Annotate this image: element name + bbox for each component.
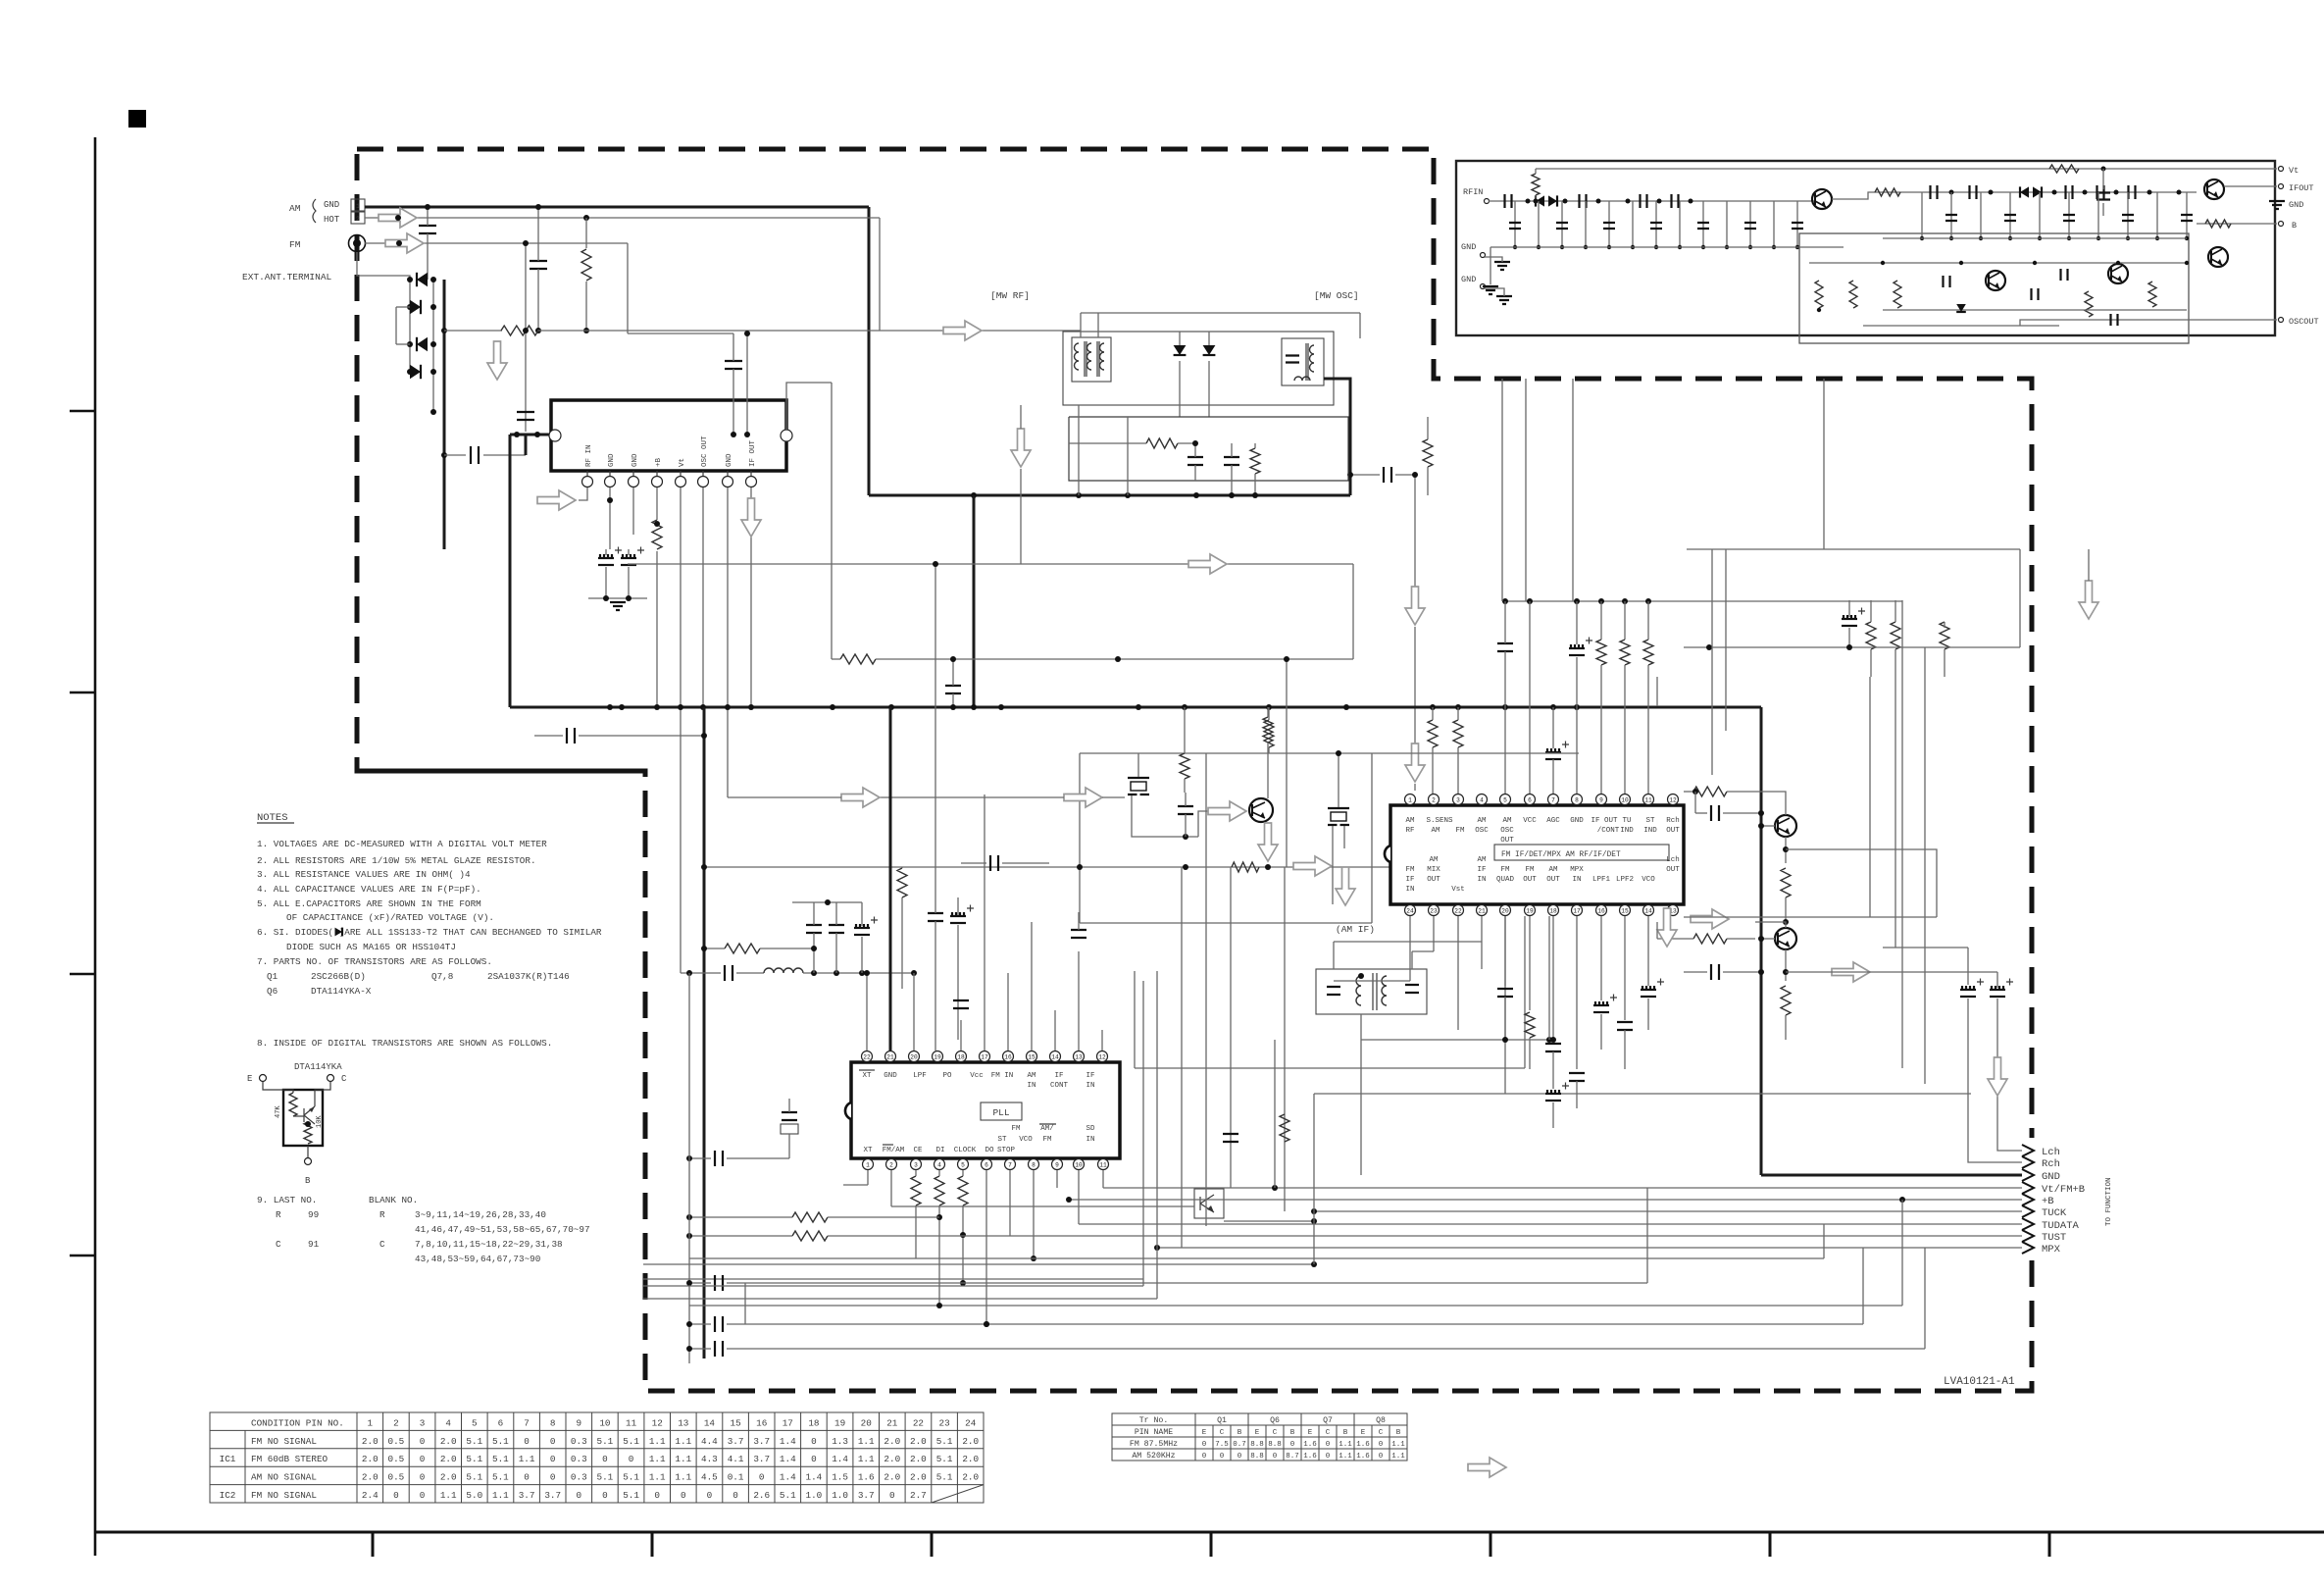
svg-text:TUST: TUST: [2042, 1232, 2066, 1244]
res below bus c: [1453, 720, 1463, 747]
svg-text:OSC OUT: OSC OUT: [701, 436, 709, 467]
svg-text:11: 11: [1644, 796, 1652, 803]
wire RFIN pin down: [579, 487, 587, 500]
dot chain b: [1949, 190, 1954, 195]
svg-text:1: 1: [866, 1161, 870, 1168]
svg-text:8.8: 8.8: [1250, 1453, 1264, 1461]
ecap above PLL d: [950, 922, 966, 924]
PLL pin 10: [1074, 1159, 1085, 1170]
cap ic1b d: [1569, 1073, 1585, 1081]
svg-text:CE: CE: [913, 1147, 923, 1154]
svg-text:2.0: 2.0: [362, 1472, 379, 1483]
svg-text:FM: FM: [289, 239, 301, 250]
svg-text:3.7: 3.7: [753, 1454, 770, 1464]
svg-text:C: C: [379, 1239, 385, 1250]
svg-text:C: C: [1326, 1429, 1331, 1437]
svg-text:TUDATA: TUDATA: [2042, 1220, 2080, 1232]
svg-text:0: 0: [1202, 1453, 1207, 1461]
cap bottom c: [715, 1275, 723, 1291]
MW osc cage: [1069, 417, 1348, 481]
svg-text:IF: IF: [1477, 866, 1486, 874]
res v right of CF1: [1180, 753, 1189, 779]
PLL pin 19: [933, 1051, 943, 1062]
svg-text:4. ALL CAPACITANCE VALUES ARE: 4. ALL CAPACITANCE VALUES ARE IN F(P=pF)…: [257, 884, 481, 895]
svg-text:5.1: 5.1: [623, 1490, 639, 1501]
svg-text:1.4: 1.4: [780, 1436, 796, 1447]
svg-text:VCC: VCC: [1523, 817, 1537, 825]
svg-text:0: 0: [393, 1490, 399, 1501]
mid long wire: [628, 563, 1353, 565]
wire to OSCOUT: [2020, 320, 2277, 326]
wire pin1 down: [867, 1170, 869, 1185]
svg-text:21: 21: [886, 1053, 894, 1060]
svg-text:FM: FM: [1042, 1136, 1052, 1144]
svg-text:5.1: 5.1: [466, 1454, 482, 1464]
svg-text:0: 0: [420, 1472, 426, 1483]
label OSCOUT: [2279, 318, 2284, 323]
svg-text:CLOCK: CLOCK: [954, 1147, 977, 1154]
svg-text:17: 17: [1573, 907, 1581, 914]
wire xt up: [866, 973, 868, 1051]
IC1 body: [1390, 805, 1684, 904]
svg-text:GND: GND: [1461, 275, 1476, 284]
svg-text:2: 2: [889, 1161, 893, 1168]
wire RFIN chain: [1489, 200, 1814, 202]
svg-text:IF: IF: [1054, 1072, 1063, 1080]
svg-text:14: 14: [1644, 907, 1652, 914]
svg-text:FM IN: FM IN: [991, 1072, 1014, 1080]
cap v above pin18: [953, 1000, 969, 1008]
PLL pin 17: [980, 1051, 990, 1062]
svg-text:1.1: 1.1: [649, 1454, 666, 1464]
svg-text:Q1: Q1: [267, 971, 278, 982]
res above PLL: [897, 868, 907, 897]
cap front-end chain2: [1641, 194, 1647, 208]
svg-text:FM: FM: [1500, 866, 1510, 874]
caps row dots: [1502, 1037, 1508, 1043]
wire Vt drop: [680, 487, 682, 707]
diode pair front-end 1: [1536, 195, 1544, 206]
svg-text:2. ALL RESISTORS ARE 1/10W 5%: 2. ALL RESISTORS ARE 1/10W 5% METAL GLAZ…: [257, 855, 536, 866]
res below bus b: [1428, 720, 1438, 747]
wire to TUCK: [1314, 1210, 2022, 1212]
svg-text:1.1: 1.1: [1391, 1453, 1405, 1461]
svg-text:C: C: [341, 1074, 347, 1084]
svg-text:1.1: 1.1: [1391, 1441, 1405, 1449]
cap mid chain5: [2129, 185, 2136, 199]
osc section wires: [1809, 262, 2187, 264]
svg-text:3.7: 3.7: [519, 1490, 535, 1501]
svg-text:1.6: 1.6: [1303, 1441, 1317, 1449]
wire to TUDATA: [1079, 1223, 2022, 1225]
svg-text:LPF: LPF: [913, 1072, 927, 1080]
wire GND2 pin drop: [632, 487, 634, 535]
IC1 pin24 down: [1409, 916, 1411, 981]
svg-text:2.0: 2.0: [362, 1454, 379, 1464]
svg-text:IF OUT: IF OUT: [1591, 817, 1618, 825]
svg-text:1.1: 1.1: [649, 1472, 666, 1483]
svg-text:0.5: 0.5: [388, 1454, 405, 1464]
output chevrons: [2022, 1145, 2034, 1156]
front-end bypass bank 2: [1921, 192, 1923, 238]
svg-text:IN: IN: [1086, 1082, 1094, 1090]
RF feed corner: [510, 435, 551, 455]
svg-text:8.7: 8.7: [1286, 1453, 1299, 1461]
svg-text:0: 0: [1290, 1441, 1295, 1449]
bottom border tick 6: [1769, 1532, 1772, 1557]
wire B line: [2197, 223, 2277, 225]
mid chain: [1902, 191, 2197, 193]
svg-text:C: C: [1379, 1429, 1384, 1437]
svg-text:AM 520KHz: AM 520KHz: [1132, 1452, 1175, 1461]
wire pin14 up: [1054, 1010, 1056, 1051]
svg-text:GND: GND: [1570, 817, 1584, 825]
wire to Lch: [1997, 1108, 2022, 1151]
MW OSC transformer: [1282, 338, 1324, 385]
svg-text:1.3: 1.3: [832, 1436, 848, 1447]
svg-text:18: 18: [957, 1053, 965, 1060]
svg-text:QUAD: QUAD: [1496, 876, 1515, 884]
svg-text:1.1: 1.1: [675, 1436, 691, 1447]
svg-text:AM: AM: [1477, 817, 1487, 825]
IC1 pin 11: [1643, 794, 1654, 805]
bus drop dark: [703, 707, 706, 1358]
svg-text:IFOUT: IFOUT: [2289, 183, 2314, 193]
svg-text:Tr No.: Tr No.: [1139, 1416, 1168, 1425]
bottom border tick 5: [1490, 1532, 1492, 1557]
svg-text:7. PARTS NO. OF TRANSISTORS AR: 7. PARTS NO. OF TRANSISTORS ARE AS FOLLO…: [257, 956, 492, 967]
svg-text:IND: IND: [1643, 827, 1657, 835]
svg-text:24: 24: [1406, 907, 1414, 914]
cap front-end chain3: [1672, 194, 1679, 208]
feeder v3: [1230, 867, 1232, 1188]
DTA B terminal: [305, 1158, 312, 1165]
FM front-end inner section box: [1799, 233, 2189, 343]
svg-text:18: 18: [808, 1417, 819, 1428]
svg-text:3~9,11,14~19,26,28,33,40: 3~9,11,14~19,26,28,33,40: [415, 1209, 546, 1220]
PLL pin 12: [1097, 1051, 1108, 1062]
svg-text:0: 0: [1326, 1441, 1331, 1449]
svg-text:4.5: 4.5: [701, 1472, 718, 1483]
arrow below Q1: [1258, 823, 1278, 861]
svg-text:18: 18: [1549, 907, 1557, 914]
PLL pin 3: [911, 1159, 922, 1170]
svg-text:8.8: 8.8: [1268, 1441, 1282, 1449]
PLL pin 4: [935, 1159, 945, 1170]
caps above PLL c: [928, 913, 943, 921]
svg-text:15: 15: [1621, 907, 1629, 914]
svg-text:1.1: 1.1: [858, 1436, 875, 1447]
svg-text:0.3: 0.3: [571, 1454, 587, 1464]
IC1 pin 24: [1405, 905, 1416, 916]
Q7 emitter down: [1785, 837, 1787, 863]
AM GND bus: [365, 206, 869, 209]
IC1 pin19 down: [1529, 916, 1531, 1010]
svg-text:PIN NAME: PIN NAME: [1135, 1428, 1173, 1437]
svg-text:1.4: 1.4: [780, 1472, 796, 1483]
svg-text:Vst: Vst: [1451, 886, 1465, 894]
res below +B: [652, 520, 662, 549]
res below pin4: [935, 1176, 944, 1205]
svg-text:7.5: 7.5: [1215, 1441, 1229, 1449]
arrow below FM IC: [537, 490, 576, 510]
wire right of cage: [1427, 494, 1429, 496]
Q8 emitter down: [1785, 949, 1787, 981]
cap feeder: [1223, 1134, 1238, 1142]
osc diode: [1956, 304, 1966, 312]
svg-text:B: B: [1396, 1429, 1401, 1437]
FM IC pin GND: [609, 471, 611, 477]
svg-text:0: 0: [811, 1454, 817, 1464]
svg-text:TUCK: TUCK: [2042, 1207, 2067, 1219]
riser pair b: [1156, 971, 1158, 1299]
pin1 feed chain: [1414, 475, 1416, 587]
IC1 pin14 down: [1647, 916, 1649, 986]
svg-text:FM 87.5MHz: FM 87.5MHz: [1130, 1440, 1178, 1449]
front-end gnd bus wire: [1490, 247, 1491, 284]
svg-text:2.0: 2.0: [440, 1472, 457, 1483]
svg-text:2.4: 2.4: [362, 1490, 379, 1501]
cap before Q7: [1711, 805, 1719, 821]
arrow below CF2: [1336, 867, 1355, 905]
svg-text:OSC: OSC: [1475, 827, 1489, 835]
svg-text:DTA114YKA: DTA114YKA: [294, 1062, 342, 1072]
svg-text:AM NO SIGNAL: AM NO SIGNAL: [251, 1472, 317, 1483]
svg-text:B: B: [1238, 1429, 1242, 1437]
gnd below IC: [588, 597, 647, 599]
svg-text:0: 0: [811, 1436, 817, 1447]
mid long wire drop: [1352, 564, 1354, 659]
cap ic1b a: [1497, 989, 1513, 997]
osc transistor 3: [2208, 247, 2228, 267]
svg-text:+B: +B: [2042, 1196, 2054, 1207]
FM jack: [349, 235, 366, 252]
svg-text:Vcc: Vcc: [970, 1072, 984, 1080]
svg-text:8. INSIDE OF DIGITAL TRANSISTO: 8. INSIDE OF DIGITAL TRANSISTORS ARE SHO…: [257, 1038, 552, 1049]
wire pin8 down: [1033, 1170, 1035, 1258]
svg-text:0.3: 0.3: [571, 1436, 587, 1447]
diode D3: [417, 337, 428, 351]
svg-text:S.SENS: S.SENS: [1426, 817, 1453, 825]
res right of cage: [1423, 439, 1433, 467]
ecap ic1b: [1593, 1011, 1609, 1013]
arrow mid wire: [943, 321, 982, 340]
svg-text:AM: AM: [1405, 817, 1415, 825]
svg-text:2.0: 2.0: [440, 1454, 457, 1464]
svg-text:DO: DO: [985, 1147, 994, 1154]
IC1 pin22 down: [1457, 916, 1459, 1030]
transistor front-end 2: [2204, 179, 2224, 199]
riser pair a: [1142, 981, 1144, 1286]
svg-text:20: 20: [861, 1417, 872, 1428]
svg-text:41,46,47,49~51,53,58~65,67,70~: 41,46,47,49~51,53,58~65,67,70~97: [415, 1224, 590, 1235]
FM front-end detail box: [1456, 161, 2275, 335]
wire pin2 down: [890, 1170, 892, 1206]
svg-text:IND: IND: [1620, 827, 1634, 835]
PLL pin 2: [886, 1159, 897, 1170]
svg-text:GND: GND: [726, 453, 733, 467]
FM IC pin Vt: [680, 471, 682, 477]
svg-text:0: 0: [707, 1490, 713, 1501]
FM IC terminal right: [781, 430, 792, 441]
IC1 pin 1: [1405, 794, 1416, 805]
svg-text:0: 0: [420, 1490, 426, 1501]
svg-text:Vt/FM+B: Vt/FM+B: [2042, 1184, 2085, 1196]
svg-text:1.6: 1.6: [858, 1472, 875, 1483]
dots osc: [1881, 261, 1885, 265]
bottom wire bundle a: [643, 1263, 1314, 1265]
ecap below IC a: [598, 564, 614, 566]
osc transistor 2: [2108, 264, 2128, 283]
svg-text:1: 1: [1408, 796, 1412, 803]
osc section resistors: [1815, 281, 1823, 308]
svg-text:[MW OSC]: [MW OSC]: [1314, 290, 1359, 301]
svg-text:12: 12: [1669, 796, 1677, 803]
Q8 collector up: [1755, 922, 1786, 928]
svg-text:0: 0: [602, 1490, 608, 1501]
bottom border tick 2: [651, 1532, 654, 1557]
cap under Vt line: [2097, 193, 2110, 200]
dot FM: [396, 240, 402, 246]
svg-text:B: B: [2292, 221, 2297, 231]
svg-text:B: B: [1290, 1429, 1295, 1437]
bottom wire bundle d: [745, 1282, 963, 1284]
svg-text:RFIN: RFIN: [1463, 187, 1483, 197]
svg-text:5.1: 5.1: [936, 1472, 953, 1483]
wire y884: [704, 866, 1390, 868]
svg-text:0: 0: [1238, 1453, 1242, 1461]
svg-text:1.1: 1.1: [858, 1454, 875, 1464]
main supply bus: [510, 706, 1761, 709]
svg-text:1. VOLTAGES ARE DC-MEASURED WI: 1. VOLTAGES ARE DC-MEASURED WITH A DIGIT…: [257, 839, 547, 849]
cap above IC: [725, 361, 742, 369]
wire to TUST: [1010, 1235, 2022, 1237]
diode D4: [410, 365, 421, 379]
res bank right: [1866, 622, 1876, 649]
svg-text:8.8: 8.8: [1250, 1441, 1264, 1449]
wire OSCOUT drop: [702, 487, 704, 707]
transistor Q8: [1775, 928, 1796, 949]
ecap out b: [1990, 996, 2005, 998]
svg-text:TU: TU: [1622, 817, 1631, 825]
IC1 pin 16: [1596, 905, 1607, 916]
wire pin10 down: [1078, 1170, 1080, 1224]
svg-text:0: 0: [629, 1454, 634, 1464]
svg-text:2.7: 2.7: [910, 1490, 927, 1501]
mid coil: [764, 968, 803, 973]
svg-text:12: 12: [1098, 1053, 1106, 1060]
wire h 1089 left: [1134, 971, 1136, 1068]
svg-text:PLL: PLL: [992, 1107, 1009, 1118]
wire pin9 down: [1056, 1170, 1058, 1188]
svg-text:DIODE SUCH AS MA165 OR HSS104T: DIODE SUCH AS MA165 OR HSS104TJ: [286, 942, 456, 952]
MW osc res v: [1250, 448, 1260, 474]
wire box left: [1079, 753, 1081, 923]
arrow into Q1: [1208, 801, 1246, 821]
svg-text:E: E: [1361, 1429, 1366, 1437]
svg-text:1.1: 1.1: [1339, 1453, 1352, 1461]
res h lower b: [792, 1231, 828, 1241]
svg-text:FM: FM: [1525, 866, 1535, 874]
IC1 pin 2: [1429, 794, 1440, 805]
IC1 function label: [1494, 845, 1669, 860]
svg-text:FM: FM: [1455, 827, 1465, 835]
IC1 pin15 down: [1624, 916, 1626, 1020]
res on y884: [1232, 862, 1259, 872]
svg-text:5.1: 5.1: [597, 1436, 614, 1447]
wire caps top rail: [792, 901, 862, 903]
ecap right top2: [1842, 625, 1857, 627]
wire Q5 base: [891, 1205, 1194, 1207]
svg-text:ST: ST: [1645, 817, 1655, 825]
svg-text:22: 22: [863, 1053, 871, 1060]
PLL pin 8: [1029, 1159, 1039, 1170]
svg-text:AM: AM: [1548, 866, 1558, 874]
PLL IC body: [851, 1062, 1120, 1158]
svg-text:8: 8: [1032, 1161, 1036, 1168]
svg-text:0: 0: [420, 1436, 426, 1447]
res bank wires: [1870, 600, 1872, 622]
wire box right: [1371, 753, 1373, 923]
svg-text:FM/AM: FM/AM: [883, 1147, 905, 1154]
wire pin20 up: [913, 973, 915, 1051]
bottom wire bundle c: [689, 1257, 916, 1259]
svg-text:5.1: 5.1: [492, 1436, 509, 1447]
svg-text:1.1: 1.1: [1339, 1441, 1352, 1449]
cap left column a: [725, 965, 733, 981]
cap at X2 line: [715, 1151, 723, 1166]
svg-text:2.6: 2.6: [753, 1490, 770, 1501]
svg-text:0.1: 0.1: [728, 1472, 744, 1483]
PLL pin 9: [1052, 1159, 1063, 1170]
svg-text:IN: IN: [1405, 886, 1414, 894]
cap before Q8: [1711, 964, 1719, 980]
arrow on y884: [1293, 856, 1332, 876]
svg-text:GND: GND: [2289, 200, 2303, 210]
cap ic1b c: [1617, 1022, 1633, 1030]
svg-text:OUT: OUT: [1666, 866, 1680, 874]
wire hot feed right: [627, 243, 629, 333]
svg-text:AM: AM: [289, 203, 301, 214]
label IFOUT: [2279, 184, 2284, 189]
ecap pin7 below bus: [1545, 758, 1561, 760]
cap line below bus: [534, 735, 563, 737]
bottom wire bundle b: [643, 1278, 1143, 1280]
svg-text:1.1: 1.1: [440, 1490, 457, 1501]
cap bottom a: [715, 1316, 723, 1332]
PLL pin 11: [1098, 1159, 1109, 1170]
IC1 pin20 down: [1504, 916, 1506, 986]
dots bottom: [984, 1321, 989, 1327]
svg-text:5. ALL E.CAPACITORS ARE SHOWN: 5. ALL E.CAPACITORS ARE SHOWN IN THE FOR…: [257, 898, 481, 909]
svg-text:10K: 10K: [316, 1115, 324, 1128]
left rail: [688, 973, 690, 1363]
svg-text:IN: IN: [1572, 876, 1581, 884]
svg-text:0.3: 0.3: [571, 1472, 587, 1483]
page corner mark: [128, 110, 146, 128]
svg-text:IC2: IC2: [220, 1490, 236, 1501]
feeder v1: [1181, 867, 1183, 1248]
feeder verticals from top: [1501, 379, 1503, 601]
wire to IFOUT: [2224, 185, 2277, 187]
AM terminal block: [351, 199, 365, 211]
crystal X2: [782, 1112, 797, 1120]
ceramic filter CF2: [1328, 807, 1349, 809]
svg-text:GND: GND: [2042, 1171, 2060, 1183]
cap FM line: [530, 261, 547, 269]
zone verts2: [1869, 677, 1871, 917]
svg-text:1.4: 1.4: [832, 1454, 848, 1464]
